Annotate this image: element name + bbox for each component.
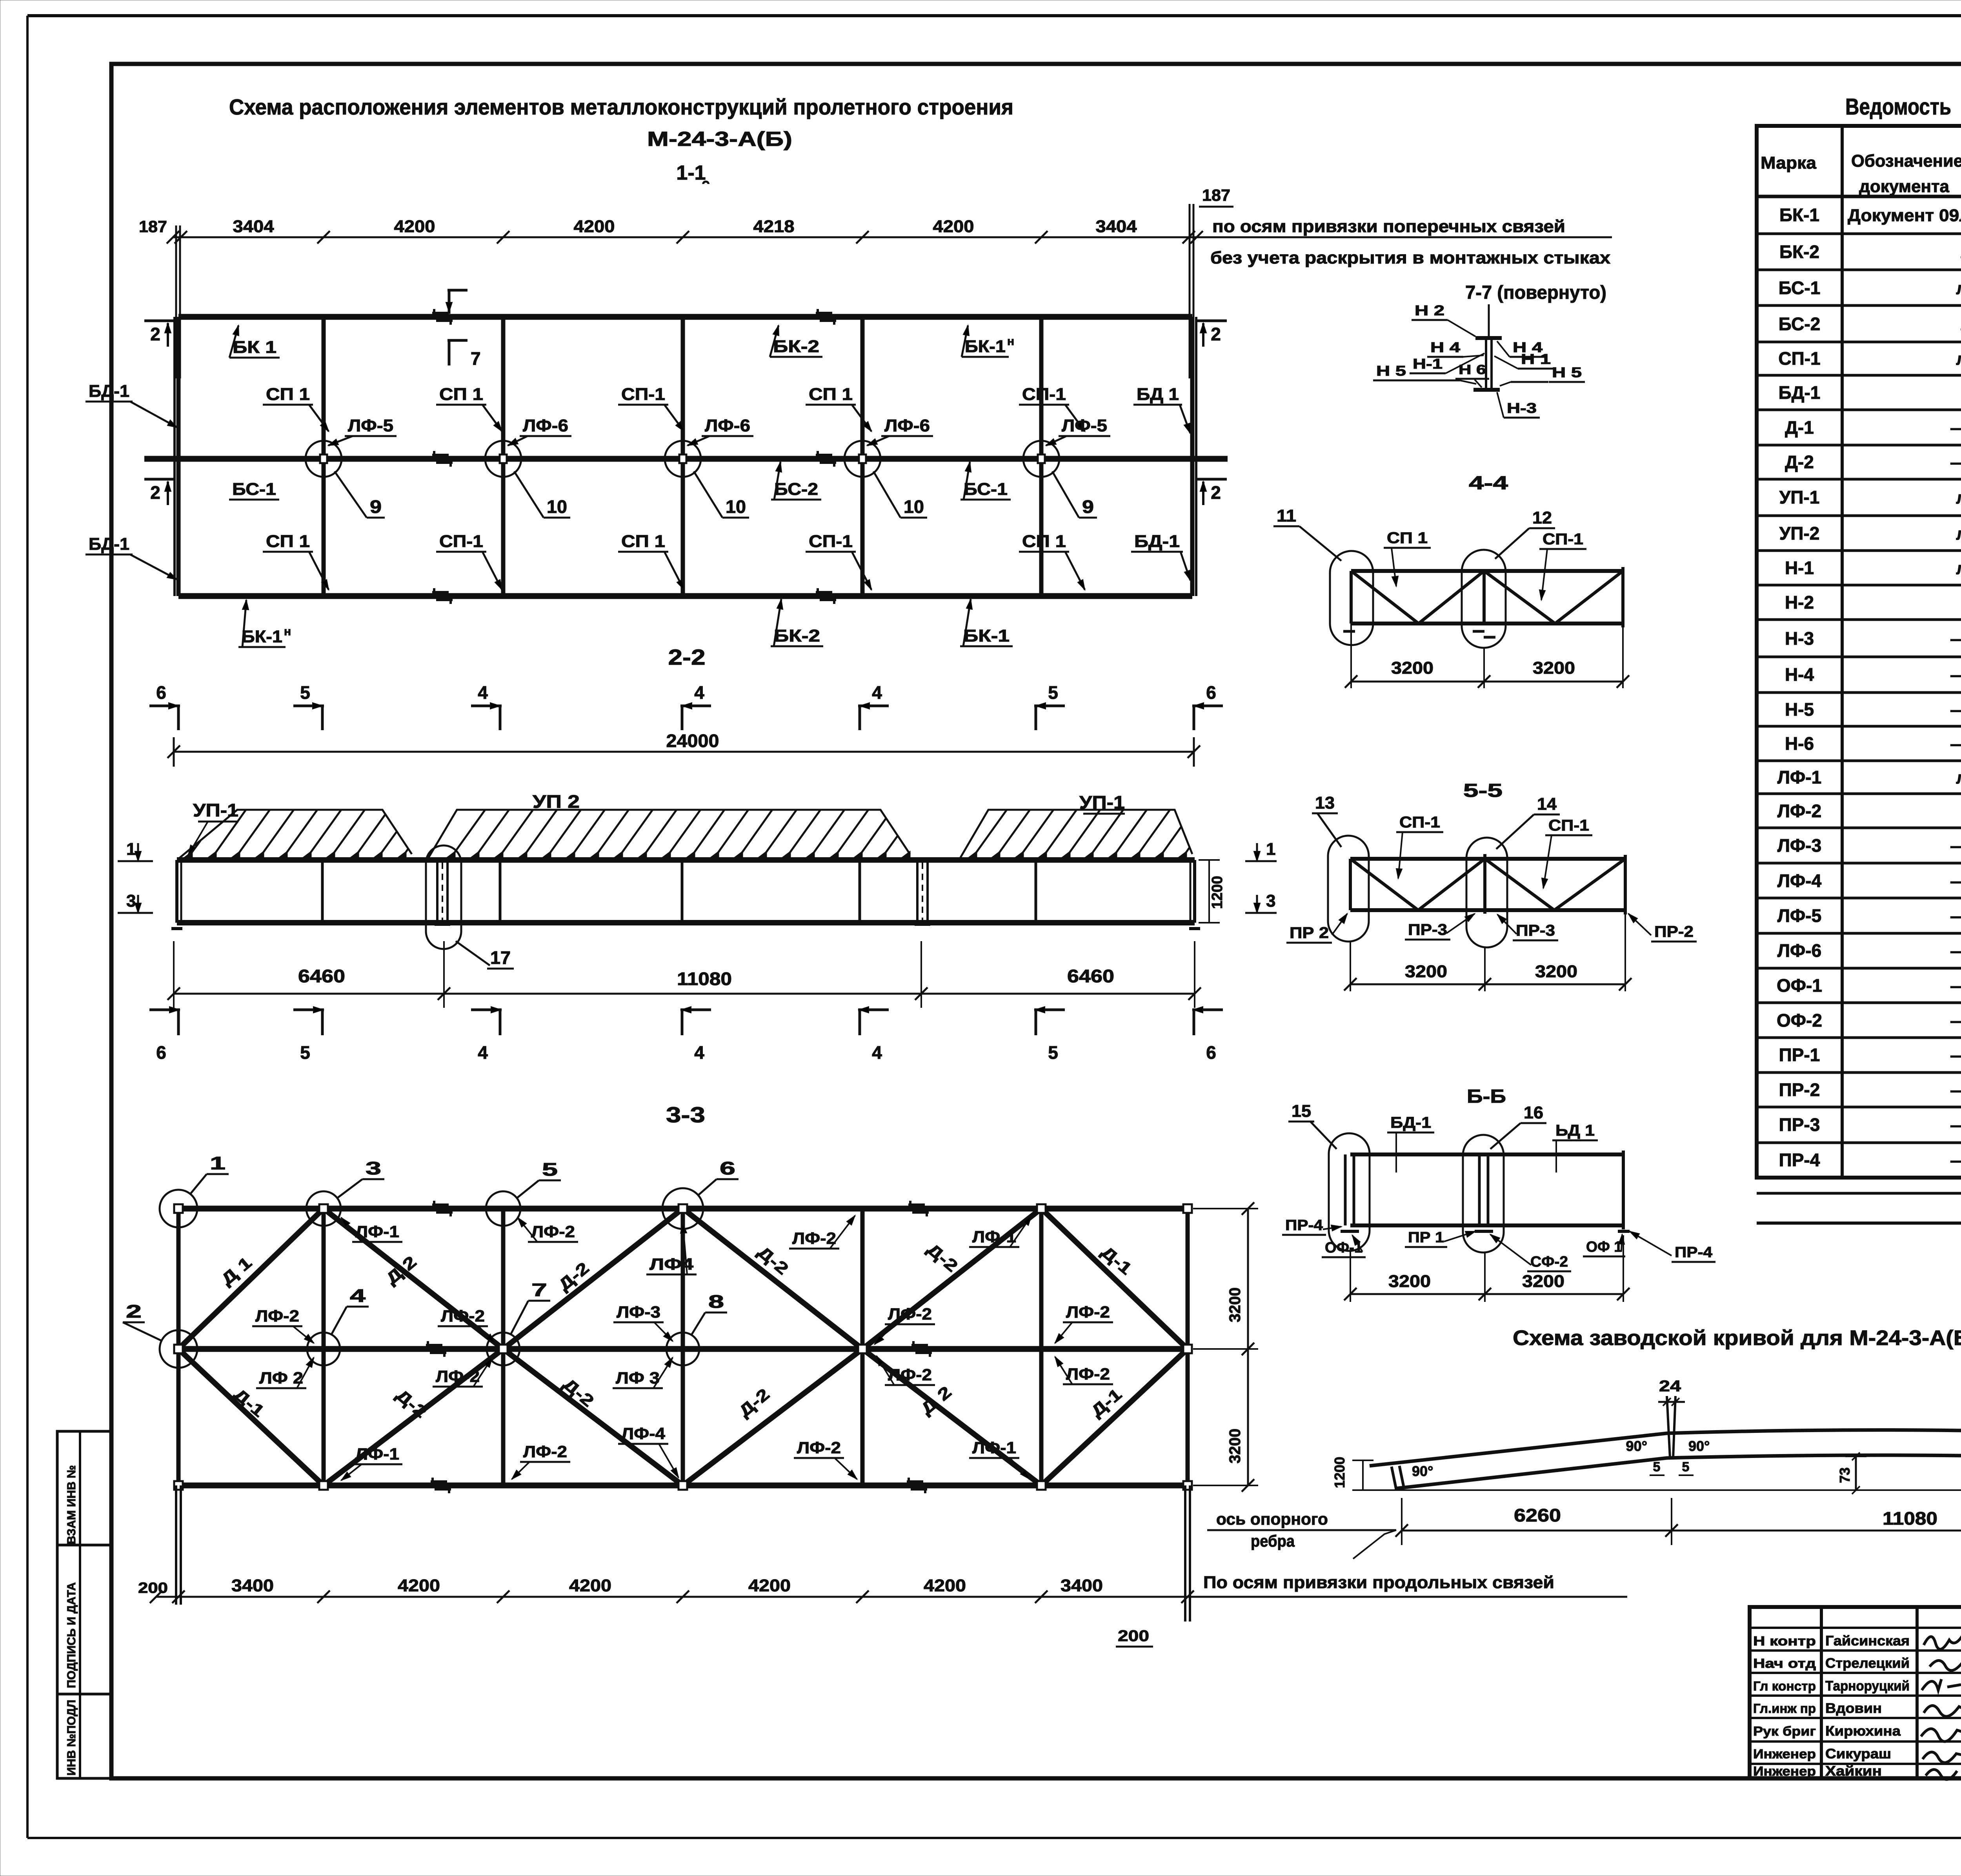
left margin stamp boxes (57, 1431, 111, 1778)
bottom flag 6 (1192, 1009, 1223, 1011)
Б-Б posts below to dim line (1350, 1251, 1351, 1302)
upor group right УП-1 (960, 810, 1192, 859)
svg-text:ПР-3: ПР-3 (1408, 921, 1447, 938)
svg-text:ЛФ-4: ЛФ-4 (621, 1424, 666, 1443)
svg-text:3200: 3200 (1535, 962, 1577, 981)
svg-text:—н—: —н— (1950, 453, 1961, 472)
svg-text:ПР-4: ПР-4 (1285, 1217, 1323, 1234)
svg-text:БД-1: БД-1 (1134, 532, 1180, 551)
svg-text:90°: 90° (1626, 1438, 1647, 1454)
svg-text:ЛФ-2: ЛФ-2 (436, 1367, 480, 1385)
svg-text:3-3: 3-3 (666, 1102, 705, 1127)
svg-text:Нач отд: Нач отд (1753, 1656, 1816, 1671)
4-4 posts (1350, 571, 1353, 624)
svg-text:ОФ 1: ОФ 1 (1586, 1239, 1622, 1255)
svg-text:187: 187 (139, 217, 167, 236)
svg-text:БС-2: БС-2 (774, 480, 818, 499)
svg-text:16: 16 (1524, 1103, 1543, 1122)
svg-text:3400: 3400 (231, 1576, 274, 1595)
svg-text:5: 5 (1048, 682, 1058, 703)
flag 4 (680, 705, 711, 707)
svg-text:н: н (1007, 335, 1014, 348)
svg-text:ЛФ-2: ЛФ-2 (1066, 1365, 1110, 1383)
svg-text:БК-1: БК-1 (963, 626, 1010, 645)
5-5 posts below to dim line (1350, 941, 1351, 991)
svg-text:—н—: —н— (1950, 942, 1961, 961)
svg-text:Б-Б: Б-Б (1467, 1086, 1506, 1107)
svg-text:ПР-2: ПР-2 (1779, 1080, 1820, 1100)
2-2 end bearing marks (171, 927, 182, 930)
section marker 2 right top (1195, 320, 1227, 322)
svg-text:Кирюхина: Кирюхина (1825, 1723, 1901, 1739)
5-5 capsule left (1328, 836, 1369, 942)
4-4 dim line 3200 3200 (1351, 681, 1623, 683)
svg-text:ПР-4: ПР-4 (1779, 1150, 1820, 1170)
svg-text:Н 6: Н 6 (1459, 362, 1486, 377)
svg-text:3: 3 (1266, 891, 1275, 911)
svg-text:73: 73 (1837, 1467, 1853, 1483)
3-3 node plates (174, 1345, 183, 1353)
svg-text:5: 5 (542, 1159, 558, 1180)
svg-text:ЛФ-2: ЛФ-2 (888, 1365, 932, 1384)
table итого row (1757, 1192, 1961, 1195)
plan 1-1 middle chord (144, 456, 1228, 462)
svg-text:6: 6 (1206, 682, 1216, 703)
3-3 bottom chord (178, 1483, 1188, 1489)
svg-text:24000: 24000 (666, 731, 719, 751)
camber splice 1 dim 24 (1658, 1401, 1685, 1403)
svg-text:М-24-3-А(Б): М-24-3-А(Б) (647, 128, 792, 151)
svg-text:2-2: 2-2 (668, 645, 706, 669)
svg-text:СП 1: СП 1 (439, 385, 483, 404)
svg-text:Обозначение: Обозначение (1851, 151, 1961, 171)
2-2 bottom dims (174, 993, 1195, 995)
svg-text:—н—: —н— (1950, 1011, 1961, 1031)
4-4 capsule left (1330, 551, 1373, 645)
flag 5 (1034, 705, 1065, 707)
svg-text:3200: 3200 (1226, 1429, 1244, 1463)
bottom flag 6 (149, 1009, 180, 1011)
svg-text:—н—: —н— (1950, 1046, 1961, 1065)
svg-text:5: 5 (300, 682, 310, 703)
svg-text:ПОДПИСЬ И ДАТА: ПОДПИСЬ И ДАТА (65, 1582, 78, 1688)
bottom flag 5 (293, 1009, 324, 1011)
svg-text:7: 7 (471, 348, 481, 369)
3-3 verticals (176, 1209, 181, 1485)
svg-text:СФ-2: СФ-2 (1530, 1254, 1568, 1270)
svg-text:БС-2: БС-2 (1779, 314, 1821, 334)
3-3 end posts below chords (175, 1485, 177, 1605)
table row lines (1757, 233, 1961, 235)
3-3 bottom dim line (156, 1596, 1627, 1598)
svg-text:по осям привязки поперечных: по осям привязки поперечных связей (1212, 217, 1565, 236)
svg-text:УП-1: УП-1 (193, 800, 238, 820)
svg-text:УП 2: УП 2 (533, 791, 580, 812)
svg-text:5: 5 (1682, 1460, 1690, 1474)
svg-text:ЛФ-2: ЛФ-2 (255, 1307, 299, 1325)
svg-text:СП 1: СП 1 (621, 532, 665, 551)
svg-text:—н—: —н— (1950, 1116, 1961, 1135)
svg-text:ЛФ-5: ЛФ-5 (1777, 905, 1821, 926)
table column lines (1841, 126, 1844, 1178)
svg-text:6260: 6260 (1514, 1505, 1561, 1525)
svg-text:лист 6: лист 6 (1956, 768, 1961, 787)
svg-text:Схема расположения элементов: Схема расположения элементов металлоконс… (229, 95, 1013, 119)
5-5 dim line 3200 3200 (1350, 983, 1625, 985)
svg-text:лист 4: лист 4 (1956, 524, 1961, 544)
svg-text:ЛФ-6: ЛФ-6 (884, 416, 930, 435)
svg-text:1200: 1200 (1209, 876, 1226, 909)
svg-text:ЛФ-6: ЛФ-6 (705, 416, 750, 435)
svg-text:4200: 4200 (924, 1576, 966, 1595)
svg-text:4: 4 (478, 682, 488, 703)
7-7 center line (1488, 304, 1490, 340)
svg-text:5-5: 5-5 (1463, 780, 1503, 801)
svg-text:—н—: —н— (1950, 418, 1961, 438)
svg-text:БК-2: БК-2 (1779, 242, 1819, 262)
svg-text:Н-2: Н-2 (1785, 592, 1814, 613)
svg-text:9: 9 (370, 496, 382, 517)
svg-text:н: н (284, 625, 291, 638)
svg-text:24: 24 (1659, 1378, 1681, 1395)
svg-text:БС-1: БС-1 (1779, 278, 1821, 298)
svg-text:ОФ-2: ОФ-2 (1777, 1010, 1822, 1031)
svg-text:Н-3: Н-3 (1507, 400, 1537, 416)
svg-text:10: 10 (547, 496, 567, 517)
svg-text:Н-6: Н-6 (1785, 733, 1814, 754)
svg-text:БК-1: БК-1 (242, 627, 282, 646)
svg-text:ЛФ-2: ЛФ-2 (1066, 1303, 1110, 1321)
svg-text:ПР-3: ПР-3 (1779, 1114, 1820, 1135)
svg-text:ЬД 1: ЬД 1 (1555, 1122, 1595, 1139)
svg-text:Н контр: Н контр (1753, 1634, 1816, 1648)
svg-text:СП-1: СП-1 (1399, 814, 1440, 831)
svg-text:Документ 09лист3: Документ 09лист3 (1848, 206, 1961, 225)
svg-text:ЛФ-2: ЛФ-2 (441, 1307, 485, 1325)
flag 4 (858, 705, 889, 707)
svg-text:10: 10 (904, 496, 924, 517)
3-3 upper diagonals (178, 1209, 324, 1349)
svg-text:4: 4 (350, 1285, 366, 1306)
svg-text:14: 14 (1537, 794, 1557, 814)
svg-text:6: 6 (156, 1042, 166, 1063)
flag 5 (293, 705, 324, 707)
svg-text:БД-1: БД-1 (89, 534, 129, 554)
2-2 splice capsule (426, 845, 461, 949)
svg-text:90°: 90° (1688, 1438, 1710, 1454)
svg-text:3: 3 (366, 1158, 381, 1178)
svg-text:ЛФ-2: ЛФ-2 (888, 1305, 932, 1323)
svg-text:без учета раскрытия в монта: без учета раскрытия в монтажных стыках (1210, 248, 1611, 267)
svg-text:СП-1: СП-1 (1778, 348, 1820, 369)
svg-text:—н—: —н— (1950, 836, 1961, 856)
svg-text:Н 4: Н 4 (1430, 339, 1460, 355)
svg-text:ПР 2: ПР 2 (1290, 924, 1329, 942)
svg-text:ЛФ-4: ЛФ-4 (1777, 871, 1822, 891)
plan 1-1 bottom chord (178, 593, 1192, 599)
Б-Б capsule middle (1463, 1135, 1504, 1252)
svg-text:документа: документа (1859, 177, 1950, 196)
svg-text:ИНВ №ПОДЛ: ИНВ №ПОДЛ (65, 1700, 78, 1776)
7-7 top flange (1475, 336, 1502, 340)
svg-text:БД 1: БД 1 (1137, 385, 1179, 404)
svg-text:15: 15 (1292, 1102, 1311, 1121)
svg-text:1-1̯: 1-1̯ (676, 162, 709, 184)
signatures (1924, 1633, 1961, 1649)
svg-text:2: 2 (1211, 482, 1221, 503)
svg-text:3200: 3200 (1522, 1272, 1564, 1291)
svg-text:БД-1: БД-1 (1390, 1114, 1431, 1131)
svg-text:6: 6 (1206, 1042, 1216, 1063)
svg-text:ПР-4: ПР-4 (1675, 1244, 1712, 1261)
svg-text:ПР-1: ПР-1 (1779, 1045, 1820, 1065)
svg-text:2: 2 (150, 324, 160, 344)
svg-text:3200: 3200 (1391, 658, 1433, 678)
svg-text:лист 3: лист 3 (1956, 559, 1961, 578)
svg-text:Инженер: Инженер (1753, 1764, 1816, 1778)
4-4 posts below to dim line (1350, 624, 1352, 688)
svg-text:ЛФ-2: ЛФ-2 (531, 1222, 575, 1241)
svg-text:4: 4 (872, 1042, 882, 1063)
svg-text:—н—: —н— (1950, 700, 1961, 720)
camber strip bottom edge (1395, 1455, 1961, 1489)
svg-text:СП-1: СП-1 (621, 385, 665, 404)
2-2 girder stiffeners (321, 860, 324, 923)
svg-text:7: 7 (531, 1280, 547, 1300)
svg-text:2: 2 (126, 1301, 142, 1322)
svg-text:Марка: Марка (1761, 153, 1817, 173)
svg-text:ЛФ-1: ЛФ-1 (355, 1222, 399, 1241)
5-5 diagonals (1350, 859, 1418, 910)
svg-text:4-4: 4-4 (1469, 473, 1508, 494)
svg-text:ЛФ-5: ЛФ-5 (348, 416, 393, 435)
svg-text:6460: 6460 (1067, 966, 1114, 986)
svg-text:1: 1 (126, 840, 136, 859)
4-4 capsule middle (1462, 550, 1506, 648)
svg-text:ЛФ 3: ЛФ 3 (616, 1369, 660, 1387)
svg-text:2: 2 (150, 482, 160, 503)
svg-text:Н 5: Н 5 (1552, 364, 1582, 380)
svg-text:6: 6 (720, 1158, 735, 1178)
4-4 end bearing marks (1343, 630, 1355, 633)
svg-text:СП 1: СП 1 (809, 385, 853, 404)
svg-text:11: 11 (1277, 506, 1296, 525)
svg-text:3404: 3404 (233, 217, 275, 236)
svg-text:4200: 4200 (748, 1576, 791, 1595)
svg-text:Д-1: Д-1 (1785, 417, 1814, 438)
svg-text:Н 2: Н 2 (1415, 302, 1444, 318)
flag 4 (471, 705, 502, 707)
svg-text:—н—: —н— (1950, 629, 1961, 649)
svg-text:8: 8 (708, 1291, 724, 1312)
title block staff rows (1750, 1627, 1961, 1629)
svg-text:13: 13 (1315, 793, 1335, 813)
sheet outer border (27, 14, 1961, 17)
3-3 lower diagonals (178, 1349, 324, 1485)
svg-text:187: 187 (1202, 186, 1230, 204)
camber splice 1 (1667, 1396, 1670, 1458)
svg-text:6460: 6460 (298, 966, 345, 986)
svg-text:ребра: ребра (1251, 1532, 1295, 1550)
svg-text:Рук бриг: Рук бриг (1753, 1724, 1816, 1738)
svg-text:БС-1: БС-1 (232, 480, 276, 499)
plan 1-1 joint symbols (432, 312, 449, 314)
svg-text:3: 3 (126, 891, 136, 911)
svg-text:Н 1: Н 1 (1521, 351, 1551, 367)
upor group middle УП 2 (428, 810, 910, 859)
svg-text:4200: 4200 (569, 1576, 611, 1595)
bottom flag 4 (680, 1009, 711, 1011)
2-2 girder outline (177, 857, 1195, 863)
svg-text:—н—: —н— (1950, 1151, 1961, 1170)
svg-text:Н-3: Н-3 (1785, 628, 1814, 649)
svg-text:СП 1: СП 1 (1387, 529, 1428, 547)
svg-text:лист 5: лист 5 (1956, 349, 1961, 369)
svg-text:ЛФ-1: ЛФ-1 (355, 1445, 399, 1463)
svg-text:ось опорного: ось опорного (1216, 1510, 1328, 1528)
4-4 diagonals (1351, 571, 1419, 624)
svg-text:5: 5 (1653, 1460, 1661, 1474)
4-4 chords (1351, 569, 1623, 573)
svg-text:ЛФ-3: ЛФ-3 (1777, 835, 1821, 856)
svg-text:—н—: —н— (1950, 665, 1961, 685)
svg-text:ЛФ-3: ЛФ-3 (617, 1303, 660, 1321)
svg-text:Гайсинская: Гайсинская (1825, 1633, 1910, 1649)
svg-text:ЛФ-1: ЛФ-1 (972, 1438, 1016, 1457)
svg-text:ПР-2: ПР-2 (1654, 923, 1694, 940)
svg-text:Гл констр: Гл констр (1753, 1679, 1816, 1693)
svg-text:ЛФ-2: ЛФ-2 (523, 1442, 567, 1461)
svg-text:УП-2: УП-2 (1779, 523, 1820, 544)
svg-text:Д-2: Д-2 (1785, 452, 1814, 472)
svg-text:ЛФ-1: ЛФ-1 (972, 1227, 1016, 1246)
svg-text:ОФ-1: ОФ-1 (1777, 975, 1822, 996)
5-5 posts (1349, 859, 1352, 910)
svg-text:4200: 4200 (398, 1576, 440, 1595)
Б-Б dim line 3200 3200 (1350, 1293, 1623, 1295)
Б-Б chords (1350, 1153, 1623, 1156)
svg-text:4: 4 (478, 1042, 488, 1063)
section flag 7 upper (448, 289, 468, 292)
svg-text:СП-1: СП-1 (439, 532, 483, 551)
svg-text:Инженер: Инженер (1753, 1747, 1816, 1761)
camber bottom dim line (1402, 1530, 1961, 1532)
svg-text:90°: 90° (1412, 1463, 1433, 1479)
svg-text:Схема заводской кривой дл: Схема заводской кривой для М-24-3-А(Б) и… (1513, 1326, 1961, 1350)
3-3 top chord (178, 1206, 1188, 1212)
bottom flag 4 (471, 1009, 502, 1011)
svg-text:Ведомость: Ведомость (1845, 94, 1951, 120)
svg-text:3404: 3404 (1096, 217, 1137, 236)
2-2 dim 24000 (174, 751, 1194, 753)
svg-text:3200: 3200 (1226, 1287, 1244, 1322)
svg-text:ЛФ-5: ЛФ-5 (1062, 416, 1107, 435)
svg-text:3200: 3200 (1533, 658, 1575, 678)
svg-text:Н-1: Н-1 (1413, 356, 1443, 372)
svg-text:Н-4: Н-4 (1785, 664, 1814, 685)
camber left end plate (1392, 1467, 1396, 1489)
bottom flag 5 (1034, 1009, 1065, 1011)
Б-Б bearing marks (1341, 1230, 1359, 1233)
flag 6 (1192, 705, 1223, 707)
svg-text:лист 4: лист 4 (1956, 488, 1961, 507)
5-5 chords (1350, 857, 1625, 861)
svg-text:ПР 1: ПР 1 (1408, 1229, 1444, 1246)
svg-text:4: 4 (694, 682, 704, 703)
svg-text:Гл.инж пр: Гл.инж пр (1753, 1701, 1816, 1716)
svg-text:БК 1: БК 1 (233, 338, 277, 357)
svg-text:11080: 11080 (677, 969, 732, 989)
svg-text:ПР-3: ПР-3 (1516, 922, 1555, 939)
plan 1-1 dimension line (173, 236, 1612, 238)
svg-text:СП-1: СП-1 (809, 532, 853, 551)
svg-text:БС-1: БС-1 (964, 480, 1008, 499)
svg-text:Н 5: Н 5 (1376, 363, 1406, 379)
svg-text:9: 9 (1082, 496, 1094, 517)
svg-text:УП-1: УП-1 (1079, 792, 1125, 813)
svg-text:ЛФ-2: ЛФ-2 (797, 1438, 841, 1457)
svg-text:12: 12 (1532, 508, 1552, 527)
svg-text:лист 3: лист 3 (1956, 279, 1961, 298)
svg-text:Хайкин: Хайкин (1825, 1763, 1882, 1779)
svg-text:6: 6 (156, 682, 166, 703)
svg-text:УП-1: УП-1 (1779, 487, 1820, 507)
svg-text:Н-5: Н-5 (1785, 699, 1814, 720)
svg-text:4: 4 (694, 1042, 704, 1063)
svg-text:5: 5 (1048, 1042, 1058, 1063)
svg-text:10: 10 (726, 496, 746, 517)
section marker 2 left mid (144, 478, 176, 481)
svg-text:ЛФ-2: ЛФ-2 (1777, 801, 1821, 821)
svg-text:ЛФ-6: ЛФ-6 (1777, 940, 1821, 961)
plan 1-1 top chord (178, 314, 1192, 320)
svg-text:1: 1 (1266, 840, 1275, 859)
svg-text:4: 4 (872, 682, 882, 703)
Б-Б posts (1344, 1154, 1347, 1225)
svg-text:3400: 3400 (1061, 1576, 1103, 1595)
svg-text:БК-1: БК-1 (965, 337, 1006, 356)
svg-text:3200: 3200 (1388, 1272, 1431, 1291)
svg-text:—н—: —н— (1950, 907, 1961, 926)
svg-text:БД-1: БД-1 (89, 382, 129, 401)
camber baseline (1369, 1489, 1961, 1491)
svg-text:3200: 3200 (1405, 962, 1447, 981)
3-3 joint symbols (432, 1203, 449, 1206)
table outer box (1757, 126, 1961, 1178)
svg-text:—н—: —н— (1950, 734, 1961, 754)
svg-text:Сикураш: Сикураш (1825, 1746, 1891, 1761)
svg-text:СП 1: СП 1 (266, 385, 310, 404)
svg-text:—н—: —н— (1950, 976, 1961, 996)
svg-text:ЛФ-6: ЛФ-6 (523, 416, 568, 435)
svg-text:—н—: —н— (1950, 1081, 1961, 1100)
svg-text:ЛФ 2: ЛФ 2 (259, 1369, 303, 1387)
camber strip top edge (1370, 1430, 1961, 1467)
svg-text:По осям привязки продольных: По осям привязки продольных связей (1203, 1573, 1554, 1592)
svg-text:БК-1: БК-1 (1779, 205, 1819, 225)
3-3 right height dims 3200 (1247, 1209, 1249, 1485)
plan 1-1 fasonka circles (306, 441, 342, 477)
svg-text:Стрелецкий: Стрелецкий (1825, 1656, 1910, 1671)
svg-text:5: 5 (300, 1042, 310, 1063)
svg-text:БК-2: БК-2 (773, 337, 819, 356)
svg-text:7-7 (повернуто): 7-7 (повернуто) (1465, 282, 1606, 303)
svg-text:БК-2: БК-2 (774, 626, 820, 645)
section marker 2 left top (144, 320, 176, 322)
svg-text:4218: 4218 (753, 217, 795, 236)
3-3 middle chord (178, 1346, 1188, 1352)
svg-text:2: 2 (1211, 324, 1221, 344)
